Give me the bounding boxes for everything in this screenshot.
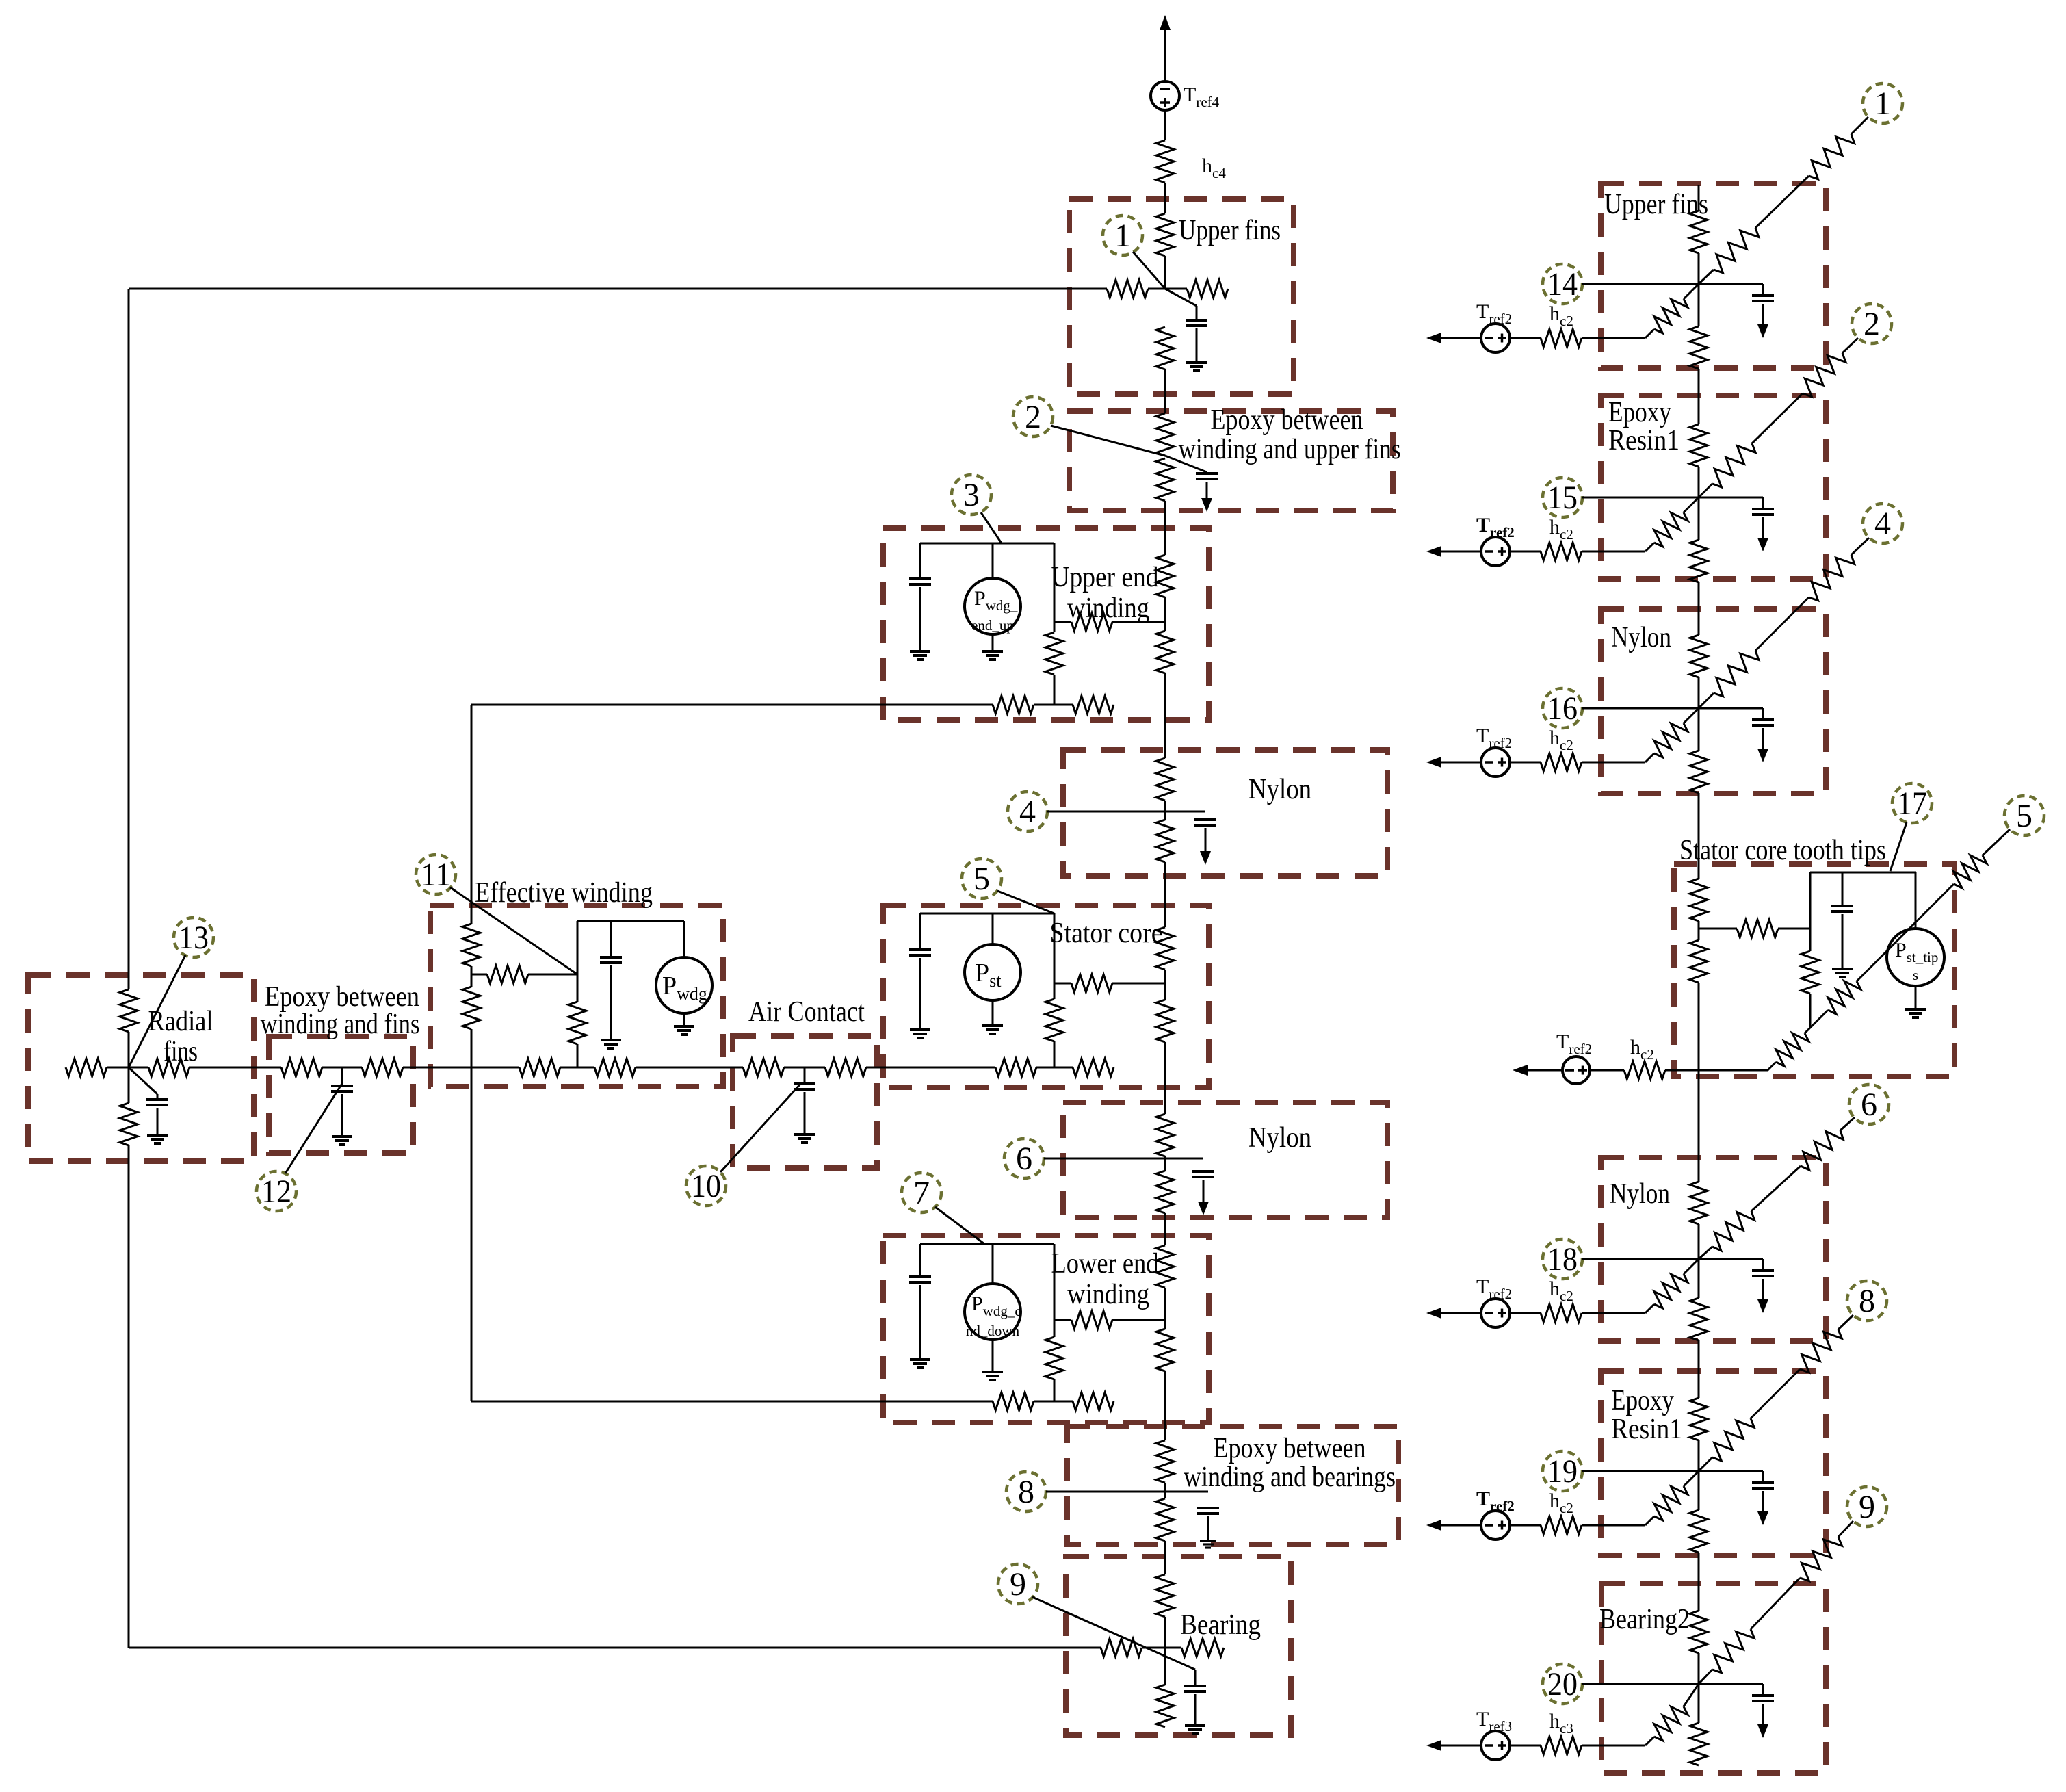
wire Pst to ground xyxy=(992,1000,994,1024)
wire upper fins cap dogleg xyxy=(1165,289,1197,320)
wire right16 diagonal c xyxy=(1851,538,1869,555)
resistor bearing left xyxy=(1101,1639,1142,1657)
wire right20 cap lead xyxy=(1699,1684,1763,1696)
source Tref4 xyxy=(1151,81,1179,110)
ground lew cap xyxy=(910,1360,930,1368)
wire nylon1 to stator xyxy=(1164,862,1166,927)
wire lew right vertical xyxy=(1054,1244,1056,1401)
wire right19 diagonal b xyxy=(1751,1369,1800,1418)
svg-text:4: 4 xyxy=(1874,506,1891,542)
label Upper fins (left) xyxy=(1179,215,1281,246)
svg-text:Epoxy: Epoxy xyxy=(1608,397,1671,428)
node 16 xyxy=(1543,688,1582,728)
wire lew bottom junction xyxy=(1034,1401,1073,1403)
wire lew top rail xyxy=(920,1243,1054,1245)
wire node11 pointer xyxy=(450,887,577,974)
wire epoxy bearings junction xyxy=(1164,1483,1166,1498)
resistor radial fins right xyxy=(148,1059,189,1076)
svg-text:Epoxy between: Epoxy between xyxy=(1211,404,1363,436)
resistor right chain 5 xyxy=(1690,635,1708,677)
label hc2 right19 xyxy=(1549,1490,1573,1516)
svg-text:15: 15 xyxy=(1547,480,1578,516)
resistor right16 diagonal 1 xyxy=(1714,651,1759,697)
resistor right chain 14 xyxy=(1690,1723,1708,1765)
svg-text:winding: winding xyxy=(1067,593,1149,624)
source Pwdg_end_up xyxy=(965,578,1021,634)
wire stator to nylon2 xyxy=(1164,1042,1166,1114)
label Tref2 right19 xyxy=(1476,1488,1515,1514)
wire tooth h lead xyxy=(1699,928,1737,930)
wire right20 diagonal b xyxy=(1751,1578,1800,1629)
svg-text:17: 17 xyxy=(1897,785,1927,822)
wire nylon1 junction xyxy=(1164,801,1166,820)
wire node8 line xyxy=(1046,1491,1208,1493)
label Upper fins (right) xyxy=(1604,189,1708,220)
resistor upper fins top xyxy=(1156,213,1174,256)
arrow down right16 cap xyxy=(1757,749,1768,762)
wire stator right vertical xyxy=(1054,913,1056,1067)
label Tref2 right14 xyxy=(1476,300,1512,327)
arrow down nylon1 cap xyxy=(1200,851,1211,865)
ground Pst xyxy=(982,1026,1003,1034)
resistor epoxy fins left xyxy=(281,1059,322,1076)
wire right19 diagonal a xyxy=(1699,1457,1712,1471)
svg-text:11: 11 xyxy=(421,857,451,893)
wire right19 rise lead xyxy=(1645,1471,1699,1525)
capacitor effective winding xyxy=(600,957,622,963)
resistor radial fins upper xyxy=(120,989,138,1032)
svg-text:winding: winding xyxy=(1067,1279,1149,1310)
svg-text:5: 5 xyxy=(973,861,990,897)
label Stator core xyxy=(1050,918,1163,949)
wire tooth cap stem xyxy=(1842,872,1844,906)
resistor right chain 2 xyxy=(1690,326,1708,369)
resistor right20 diagonal 2 xyxy=(1800,1537,1842,1581)
resistor right16 rise diagonal xyxy=(1654,723,1688,757)
svg-text:Tref2: Tref2 xyxy=(1476,1488,1515,1514)
box Nylon (upper left) xyxy=(1063,750,1387,876)
svg-text:Epoxy between: Epoxy between xyxy=(1214,1433,1366,1464)
svg-text:Epoxy: Epoxy xyxy=(1611,1385,1674,1416)
ground effective winding xyxy=(601,1040,621,1048)
label hc2 right14 xyxy=(1549,302,1573,329)
label Bearing xyxy=(1180,1609,1261,1641)
svg-text:winding and bearings: winding and bearings xyxy=(1184,1462,1396,1493)
wire lew cap stem xyxy=(919,1244,921,1277)
wire upper fins left lead xyxy=(1148,288,1165,290)
arrow up (top) xyxy=(1160,15,1171,81)
wire epoxy bearings to bearing xyxy=(1164,1541,1166,1574)
svg-text:13: 13 xyxy=(179,920,209,956)
wire right14 cap lead2 xyxy=(1762,304,1764,324)
svg-text:16: 16 xyxy=(1547,690,1578,727)
resistor upper fins bottom xyxy=(1156,327,1174,369)
arrow down right14 cap xyxy=(1757,324,1768,338)
wire upper fins right lead xyxy=(1165,288,1187,290)
wire node12 pointer xyxy=(285,1085,341,1173)
node 11 xyxy=(416,855,456,894)
box Epoxy between winding and fins xyxy=(269,1037,413,1153)
wire node15 line xyxy=(1582,497,1699,499)
capacitor right14 xyxy=(1752,296,1774,301)
ground radial fins xyxy=(147,1135,168,1143)
node 7 xyxy=(902,1173,941,1212)
label Epoxy between winding and upper fins xyxy=(1179,404,1401,465)
wire bearing cap lead xyxy=(1194,1694,1197,1724)
wire tooth hc2 lead xyxy=(1590,1069,1624,1072)
capacitor epoxy bearings xyxy=(1197,1508,1219,1514)
wire tooth diag a xyxy=(1768,1062,1776,1070)
resistor upper end winding top xyxy=(1156,555,1174,597)
capacitor air contact xyxy=(794,1084,815,1089)
resistor right18 diagonal 2 xyxy=(1801,1130,1844,1170)
node 4 (right) xyxy=(1863,504,1902,543)
label Tref2 right18 xyxy=(1476,1275,1512,1302)
wire right18 rise lead xyxy=(1645,1259,1699,1313)
source Tref3 right20 xyxy=(1481,1731,1510,1760)
resistor effective winding horizontal xyxy=(487,965,528,983)
svg-text:winding and fins: winding and fins xyxy=(261,1009,420,1040)
wire node19 line xyxy=(1582,1470,1699,1472)
ground air contact xyxy=(794,1134,815,1143)
wire lew cap lead xyxy=(919,1285,921,1358)
resistor right chain 10 xyxy=(1690,1298,1708,1340)
resistor right chain 3 xyxy=(1690,424,1708,467)
node 1 (right) xyxy=(1863,83,1902,123)
svg-text:Tref4: Tref4 xyxy=(1184,83,1220,110)
node 5 (right) xyxy=(2004,796,2044,835)
resistor hc2 tooth tips xyxy=(1624,1061,1665,1079)
svg-text:hc4: hc4 xyxy=(1202,155,1226,181)
label Radial fins xyxy=(148,1006,213,1067)
node 20 xyxy=(1543,1664,1582,1704)
box Lower end winding xyxy=(883,1236,1209,1423)
label Nylon (lower left) xyxy=(1248,1122,1311,1154)
source Tref2 right18 xyxy=(1481,1299,1510,1327)
source Pwdg xyxy=(656,957,712,1013)
resistor uew horizontal xyxy=(1071,613,1112,631)
svg-text:Nylon: Nylon xyxy=(1248,1122,1311,1154)
wire node5 pointer xyxy=(997,891,1054,913)
label hc2 right15 xyxy=(1549,516,1573,543)
svg-text:Resin1: Resin1 xyxy=(1611,1414,1682,1445)
arrow down nylon2 cap xyxy=(1198,1202,1209,1215)
svg-text:18: 18 xyxy=(1547,1241,1578,1277)
wire left vertical (x=188) xyxy=(128,289,130,1648)
wire right16 hc lead2 xyxy=(1582,762,1645,764)
resistor upper fins right stub xyxy=(1187,280,1228,298)
svg-text:Resin1: Resin1 xyxy=(1608,425,1679,456)
wire right20 hc lead2 xyxy=(1582,1745,1645,1747)
svg-text:Pwdg_: Pwdg_ xyxy=(974,587,1018,614)
arrow left tooth tips xyxy=(1513,1065,1562,1076)
wire upper fins left rail xyxy=(129,288,1107,290)
svg-text:1: 1 xyxy=(1874,86,1891,122)
wire epoxy to upper end winding xyxy=(1164,501,1166,555)
svg-text:9: 9 xyxy=(1010,1566,1026,1602)
wire right20 diagonal a xyxy=(1699,1670,1712,1684)
svg-text:s: s xyxy=(1913,967,1918,983)
wire right15 diagonal c xyxy=(1842,338,1858,353)
wire right14 diagonal a xyxy=(1699,270,1714,284)
resistor right14 diagonal 2 xyxy=(1809,134,1855,179)
svg-text:2: 2 xyxy=(1864,306,1880,342)
wire right16 diagonal a xyxy=(1699,693,1714,708)
wire uew bottom rail xyxy=(471,704,993,706)
wire right16 hc lead xyxy=(1510,762,1541,764)
resistor stator rail stub xyxy=(1073,1059,1114,1076)
resistor hc2 right16 xyxy=(1541,753,1582,771)
resistor tooth diag 1 xyxy=(1776,1033,1809,1066)
resistor effective winding left upper xyxy=(462,924,480,966)
resistor bearing top xyxy=(1156,1574,1174,1617)
resistor epoxy bearings bottom xyxy=(1156,1498,1174,1541)
arrow left right18 xyxy=(1426,1308,1481,1319)
resistor epoxy fins right xyxy=(362,1059,403,1076)
svg-text:Tref2: Tref2 xyxy=(1476,725,1512,751)
resistor right20 rise diagonal xyxy=(1654,1706,1688,1741)
resistor uew bottom stub xyxy=(1073,696,1114,714)
svg-text:Stator core tooth tips: Stator core tooth tips xyxy=(1679,835,1886,866)
capacitor right15 xyxy=(1752,509,1774,515)
resistor nylon2 bottom xyxy=(1156,1171,1174,1213)
wire Pwdg_end_down stem xyxy=(992,1244,994,1284)
resistor hc2 right18 xyxy=(1541,1304,1582,1322)
wire effective cap lead xyxy=(610,965,612,1039)
svg-text:Pst: Pst xyxy=(975,959,1002,991)
resistor right chain 6 xyxy=(1690,751,1708,793)
source Tref2 right19 xyxy=(1481,1511,1510,1540)
node 13 xyxy=(174,918,213,957)
wire right14 hc lead2 xyxy=(1582,337,1645,339)
wire stator cap stem xyxy=(919,913,921,950)
wire right18 cap lead2 xyxy=(1762,1279,1764,1299)
svg-text:Stator core: Stator core xyxy=(1050,918,1163,949)
svg-text:12: 12 xyxy=(261,1173,291,1210)
source Tref2 tooth tips xyxy=(1562,1056,1590,1084)
capacitor right16 xyxy=(1752,720,1774,725)
node 19 xyxy=(1543,1451,1582,1491)
box Radial fins xyxy=(28,975,254,1161)
svg-text:7: 7 xyxy=(913,1175,930,1211)
wire rail air-stator xyxy=(866,1067,995,1069)
wire stator cap lead xyxy=(919,958,921,1028)
arrow left right19 xyxy=(1426,1520,1481,1531)
wire uew to nylon xyxy=(1164,673,1166,758)
node 3 xyxy=(952,475,991,515)
box Epoxy Resin1 (lower) xyxy=(1601,1371,1826,1555)
resistor air contact right xyxy=(825,1059,866,1076)
wire to junction upper fins xyxy=(1164,256,1166,289)
resistor tooth horizontal xyxy=(1737,920,1778,937)
resistor right14 rise diagonal xyxy=(1654,299,1688,333)
resistor right chain 7 xyxy=(1690,879,1708,921)
resistor hc2 right14 xyxy=(1541,329,1582,347)
resistor right chain 4 xyxy=(1690,540,1708,582)
svg-text:Lower end: Lower end xyxy=(1051,1248,1159,1280)
wire right15 rise lead xyxy=(1645,497,1699,551)
wire node9 pointer to cap xyxy=(1032,1597,1195,1686)
wire right20 hc lead xyxy=(1510,1745,1541,1747)
ground tooth cap xyxy=(1832,969,1853,977)
wire rail air junction xyxy=(784,1067,825,1069)
wire upper fins cap to ground xyxy=(1196,328,1198,361)
wire epoxy cap dogleg xyxy=(1165,456,1207,473)
wire air cap lead xyxy=(804,1092,806,1133)
label Tref2 right15 xyxy=(1476,514,1515,541)
wire right19 diagonal c xyxy=(1838,1315,1853,1329)
arrow down right19 cap xyxy=(1757,1511,1768,1525)
wire node7 pointer xyxy=(935,1207,984,1244)
capacitor right18 xyxy=(1752,1271,1774,1276)
wire effective h-resistor lead xyxy=(471,974,487,976)
box Nylon (lower left) xyxy=(1063,1102,1387,1217)
wire right16 cap lead xyxy=(1699,708,1763,720)
resistor tooth diag 2 xyxy=(1828,981,1861,1014)
svg-text:Effective winding: Effective winding xyxy=(475,877,653,909)
wire epoxy fins cap lead top xyxy=(341,1067,343,1086)
ground upper fins xyxy=(1186,363,1207,371)
svg-text:Nylon: Nylon xyxy=(1610,1178,1670,1210)
wire tooth h lead2 xyxy=(1778,928,1810,930)
source Pwdg_end_down xyxy=(965,1284,1021,1340)
svg-text:Pwdg_e: Pwdg_e xyxy=(971,1293,1021,1319)
ground stator cap xyxy=(910,1030,930,1038)
resistor upper fins left xyxy=(1107,280,1148,298)
resistor lew horizontal xyxy=(1071,1311,1112,1329)
label Tref2 tooth tips xyxy=(1556,1030,1592,1057)
svg-text:Upper fins: Upper fins xyxy=(1179,215,1281,246)
svg-text:Pst_tip: Pst_tip xyxy=(1895,939,1938,965)
ground bearing xyxy=(1185,1726,1205,1734)
resistor lew bottom stub xyxy=(1073,1392,1114,1410)
wire right15 diagonal b xyxy=(1752,393,1803,443)
wire node18 line xyxy=(1582,1258,1699,1260)
wire uew h lead 2 xyxy=(1112,621,1165,623)
resistor radial fins stub xyxy=(66,1059,107,1076)
wire right18 diagonal c xyxy=(1840,1117,1855,1130)
box Epoxy Resin1 (upper) xyxy=(1601,395,1826,579)
wire Pwdg_end_down to ground xyxy=(992,1340,994,1371)
svg-text:hc2: hc2 xyxy=(1549,302,1573,329)
wire Tref4 to hc4 xyxy=(1164,110,1166,140)
capacitor nylon1 xyxy=(1194,820,1216,825)
svg-text:winding and upper fins: winding and upper fins xyxy=(1179,434,1401,465)
wire right18 hc lead xyxy=(1510,1312,1541,1314)
resistor uew right vertical xyxy=(1045,632,1063,675)
resistor epoxy upper A xyxy=(1156,413,1174,456)
svg-text:hc2: hc2 xyxy=(1549,1490,1573,1516)
resistor stator rail left xyxy=(995,1059,1036,1076)
wire epoxy fins cap lead xyxy=(341,1094,343,1135)
resistor hc2 right15 xyxy=(1541,543,1582,560)
resistor uew bottom left xyxy=(993,696,1034,714)
arrow left right16 xyxy=(1426,757,1481,768)
node 6 (left) xyxy=(1004,1139,1044,1178)
wire lew h lead xyxy=(1054,1319,1071,1321)
svg-text:9: 9 xyxy=(1859,1489,1875,1525)
wire tooth diag d xyxy=(1983,829,2010,855)
ground Pwdg xyxy=(674,1026,694,1035)
capacitor upper fins xyxy=(1186,320,1207,326)
wire rail effective junction xyxy=(560,1067,594,1069)
label Epoxy Resin1 (lower) xyxy=(1611,1385,1682,1445)
ground epoxy fins xyxy=(332,1137,352,1145)
resistor right chain 8 xyxy=(1690,940,1708,983)
resistor lew right vertical xyxy=(1045,1337,1063,1379)
wire bearing chain below junction xyxy=(1164,1648,1166,1685)
wire right18 cap lead xyxy=(1699,1259,1763,1271)
node 15 xyxy=(1543,478,1582,517)
label Epoxy Resin1 (upper) xyxy=(1608,397,1679,456)
resistor stator top xyxy=(1156,927,1174,970)
wire right20 diagonal c xyxy=(1838,1521,1853,1537)
wire node3 pointer xyxy=(981,512,1002,543)
ground uew cap xyxy=(910,651,930,660)
label Epoxy between winding and bearings xyxy=(1184,1433,1396,1493)
box Bearing2 xyxy=(1601,1583,1826,1773)
resistor lew bottom left xyxy=(993,1392,1034,1410)
wire node6 line xyxy=(1044,1158,1203,1160)
wire Pst stem xyxy=(992,913,994,944)
resistor effective winding left lower xyxy=(462,987,480,1029)
node 9 (right) xyxy=(1847,1487,1887,1527)
label Nylon (upper right) xyxy=(1611,622,1671,653)
node 12 xyxy=(257,1171,296,1211)
resistor right chain 11 xyxy=(1690,1398,1708,1440)
node 5 (left) xyxy=(962,859,1002,898)
label Effective winding xyxy=(475,877,653,909)
wire node14 line xyxy=(1582,283,1699,285)
ground epoxy bearings (small) xyxy=(1200,1541,1216,1548)
resistor upper end winding bottom xyxy=(1156,631,1174,673)
wire stator h lead 2 xyxy=(1112,983,1165,985)
wire Pwdg_end_up to ground xyxy=(992,634,994,650)
wire right20 rise lead xyxy=(1645,1684,1699,1745)
svg-text:10: 10 xyxy=(691,1168,721,1204)
capacitor bearing xyxy=(1184,1686,1206,1691)
resistor right16 diagonal 2 xyxy=(1809,555,1855,601)
capacitor uew xyxy=(909,579,931,584)
label hc2 tooth tips xyxy=(1630,1036,1654,1063)
label Nylon (lower right) xyxy=(1610,1178,1670,1210)
arrow left right20 xyxy=(1426,1740,1481,1751)
node 8 (right) xyxy=(1847,1281,1887,1321)
resistor lower end winding bottom xyxy=(1156,1329,1174,1371)
svg-text:hc3: hc3 xyxy=(1549,1710,1573,1737)
wire right20 cap lead2 xyxy=(1762,1704,1764,1724)
wire right chain verticals xyxy=(1698,185,1700,1723)
wire uew junction xyxy=(1164,597,1166,631)
ground Pst_tips xyxy=(1905,1009,1926,1017)
box Upper fins (right) xyxy=(1601,183,1826,368)
capacitor lew xyxy=(909,1277,931,1282)
node 2 (right) xyxy=(1852,304,1892,343)
source Pst_tips xyxy=(1887,929,1944,986)
wire nylon1 cap lead xyxy=(1205,828,1207,851)
wire effective center vertical xyxy=(577,921,579,1067)
wire node17 pointer xyxy=(1890,822,1907,871)
wire right19 cap lead xyxy=(1699,1471,1763,1483)
svg-text:Tref2: Tref2 xyxy=(1476,300,1512,327)
resistor stator right vertical xyxy=(1045,999,1063,1041)
node 4 (left) xyxy=(1008,792,1047,831)
arrow down right20 cap xyxy=(1757,1724,1768,1738)
resistor effective winding rail left xyxy=(519,1059,560,1076)
wire right19 hc lead2 xyxy=(1582,1524,1645,1527)
node 6 (right) xyxy=(1849,1085,1889,1124)
svg-text:Air Contact: Air Contact xyxy=(748,996,865,1028)
